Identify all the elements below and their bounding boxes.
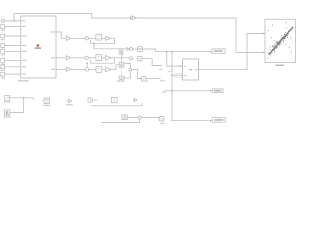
fitted diagonal line [270,27,293,54]
labels bottom icons [4,101,11,102]
wire top long run to scatter plot [14,14,265,53]
gain G1 row3 [66,67,71,71]
wire drop through rows [121,54,123,62]
junction branch model in2 [171,75,173,77]
arrowhead [157,117,159,119]
wire [89,68,96,70]
wire [89,37,96,39]
inport square 7 [1,72,5,76]
arrowhead into model block in1 [180,65,182,67]
wire to sum [127,117,138,119]
wire [5,35,21,37]
clock icon [88,98,93,103]
subsystem block [21,16,56,78]
inport square 2 [1,34,5,38]
gain G2 row2 [105,56,110,61]
model block inner text [189,69,192,70]
junction row2 to sum3 [86,62,88,64]
wire chain A drop [94,44,127,49]
wire from round port to subsystem [4,20,21,22]
sum S2 [85,56,88,59]
junction branch display1 [171,90,173,92]
sum S3 [86,68,89,71]
wire drop to sum3 [86,63,88,67]
rate transition icon on top wire [131,16,137,20]
wire [88,57,96,59]
wire up into top stair block [111,65,119,70]
goto tag chain A [137,47,142,52]
wire [5,26,21,28]
feedback wire row1 [91,38,115,43]
stair block bottom row [122,115,127,120]
arrowhead [139,78,141,80]
wire B join [10,98,24,113]
wire out3 [56,68,66,70]
label under plot [275,65,284,66]
arrowhead into plot bottom input [263,52,265,54]
long underline wire [90,103,142,106]
constant square B [4,110,9,115]
wire [172,74,182,76]
arrow glyph chain A [127,48,130,51]
labels under inports [1,30,5,31]
clock text [94,99,97,101]
wire [5,45,21,47]
boxed pin label at model in2 [175,74,182,78]
arrowhead [180,74,182,76]
wire [5,73,21,75]
labels near row4 tags [117,81,123,82]
wire [102,57,106,59]
arrowhead [210,90,212,92]
display2 [212,118,225,123]
wire chain A to display3 [133,49,212,52]
wire row2 onward [111,57,129,59]
inport square 1 [1,25,5,29]
wire out1 jog [56,32,66,38]
arrowhead into display3 [210,51,212,53]
arrowhead into display2 [210,120,212,122]
display2 inner text [214,119,223,121]
arrow glyph block 2 [133,98,138,101]
wire circle to tag row4 [132,70,141,79]
inport square 3 [1,44,5,48]
display3 [212,49,225,53]
gain G2 row3 [106,67,112,72]
wire [71,68,86,70]
label under red icon [35,48,41,49]
wire to model in1 [167,52,182,66]
junction branch model in1 [166,51,168,53]
wire model output to plot [199,34,265,70]
goto tag row4 [141,77,146,82]
wire [5,50,21,52]
small subsystem block C [44,98,50,104]
memory block [111,97,117,102]
inport square 5 [1,58,5,62]
label under subsystem [18,80,29,81]
line from tag row4 [146,78,161,80]
circle gadget chain A [130,48,133,51]
wire [5,66,21,68]
wire A [10,98,34,100]
pin labels subsystem left [22,20,25,21]
goto tag row2 [137,57,142,61]
junction [23,97,25,99]
arrow glyph block [67,99,72,102]
sum S1 [85,37,88,40]
display1 [212,89,223,93]
junction long vertical [171,51,173,53]
model block [183,59,199,80]
unit delay Z2 [96,55,102,61]
wire from tag row2 dangling [142,59,162,66]
wire sum to tag [141,117,159,119]
wire long vertical to display2 [172,52,212,121]
gain G1 row2 [66,56,70,60]
wire [71,57,85,59]
junction [13,20,15,22]
red chart icon inside subsystem [37,44,39,46]
pin labels subsystem right [51,31,55,32]
unit delay Z3 [96,67,102,73]
feedback wire row2 [91,58,115,63]
inport square 6 [1,65,5,69]
circle gadget row3 [129,68,132,71]
wire [5,59,21,61]
buffer block under wire chain A [119,50,123,54]
wire from stair bottom to circle [124,71,130,78]
junction row1 tap [93,43,95,45]
goto tag bottom mid [159,117,164,122]
stair block top row3 [119,62,124,67]
scatter points [267,22,293,58]
wire from stair top to circle [124,64,130,69]
wire [71,37,85,39]
circle gadget row2 [129,57,132,60]
wire [102,68,106,70]
inport square 4 [1,49,5,53]
unit delay Z1 [96,34,102,40]
wire bottom feedback [101,119,139,122]
display1 inner text [214,90,221,91]
gain G2 row1 [106,36,111,40]
scatter figure block [265,19,296,62]
sum bottom row [138,116,141,119]
wire to display1 [164,90,212,92]
wire out2 [56,57,66,59]
node In round port [1,19,4,22]
arrowhead into plot top input [263,33,265,35]
wire [102,37,106,39]
constant square A [5,96,10,101]
gain G1 row1 [66,36,70,40]
stair block bottom row3 [119,76,124,81]
